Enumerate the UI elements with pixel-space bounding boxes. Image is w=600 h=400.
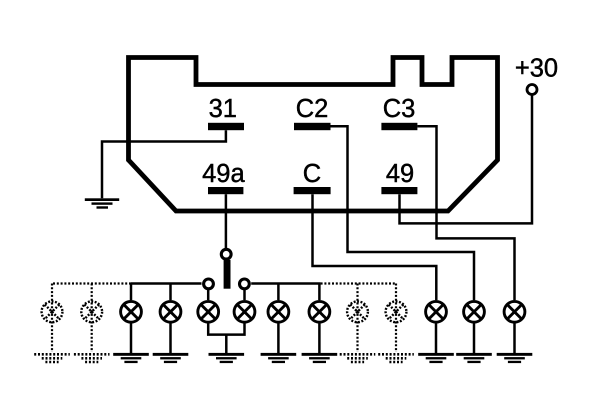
flasher relay outline U1 — [129, 58, 498, 212]
lamp L10 (dotted) — [386, 301, 407, 322]
lamp L1 (dotted) — [42, 301, 63, 322]
wire left lamp bus dotted extension — [52, 282, 131, 284]
wire lamp L13 to ground — [513, 324, 516, 354]
svg-text:C2: C2 — [296, 95, 329, 123]
lamp L4 — [160, 301, 181, 322]
lamp L8 — [309, 301, 330, 322]
lamp L7 — [268, 301, 289, 322]
ground symbol lamp L11 — [418, 353, 454, 363]
wire C2 to lamp L12 — [330, 126, 474, 300]
svg-text:+30: +30 — [515, 55, 558, 83]
ground symbol lamp L12 — [456, 353, 492, 363]
terminal C3 pad — [381, 123, 417, 130]
wire drop to lamp L2 dotted — [91, 284, 93, 353]
svg-text:C3: C3 — [383, 95, 416, 123]
switch S1 top contact — [221, 249, 231, 259]
lamp L2 (dotted) — [81, 301, 102, 322]
wire 49 to +30 — [400, 95, 533, 223]
svg-text:C: C — [303, 160, 321, 188]
wire 31 to ground — [102, 130, 226, 198]
svg-text:49a: 49a — [202, 160, 245, 188]
terminal 49a pad — [208, 187, 243, 194]
wire lamp L12 to ground — [473, 324, 476, 354]
wire lamp L4 to ground — [169, 324, 172, 354]
ground symbol lamp L4 — [153, 353, 189, 363]
wire drop to lamp L9 dotted — [356, 284, 358, 353]
switch S1 lever — [224, 260, 231, 289]
ground symbol lamp L8 — [302, 353, 338, 363]
wire C to lamp L11 — [313, 194, 437, 300]
wire left contact to lamp bus — [131, 282, 202, 285]
wire drop to lamp L3 — [130, 284, 133, 301]
wire drop to lamp L8 — [318, 284, 321, 301]
ground symbol lamps L5+L6 — [209, 353, 245, 363]
ground symbol lamp L9 (dotted) — [340, 354, 376, 362]
terminal C pad — [294, 187, 331, 194]
ground symbol lamp L13 — [497, 353, 533, 363]
wire lamp L11 to ground — [435, 324, 438, 354]
wire C3 to lamp L13 — [417, 126, 514, 300]
wire lamp L3 to ground — [130, 324, 133, 354]
svg-text:31: 31 — [209, 95, 237, 123]
terminal 31 pad — [208, 123, 244, 130]
lamp L11 — [426, 301, 447, 322]
lamp L13 — [504, 301, 525, 322]
+30 terminal circle — [527, 85, 537, 95]
wire drop to lamp L4 — [169, 284, 172, 301]
wire drop to lamp L5 — [207, 289, 210, 300]
wire lamps L5+L6 to shared ground — [208, 324, 244, 354]
wire drop to lamp L1 dotted — [51, 284, 53, 353]
wire right lamp bus dotted extension — [321, 282, 396, 284]
ground symbol lamp L10 (dotted) — [378, 354, 414, 362]
lamp L9 (dotted) — [347, 301, 368, 322]
terminal C2 pad — [294, 123, 331, 130]
lamp L5 — [198, 301, 219, 322]
lamp L12 — [464, 301, 485, 322]
ground symbol lamp L7 — [261, 353, 297, 363]
wire right contact to lamp bus — [251, 282, 320, 285]
ground symbol G1 (terminal 31) — [85, 198, 119, 208]
ground symbol lamp L1 (dotted) — [34, 354, 70, 362]
wire lamp L8 to ground — [318, 324, 321, 354]
wire 49a to switch — [225, 194, 228, 248]
wire drop to lamp L6 — [243, 289, 246, 300]
switch S1 left contact — [204, 279, 214, 289]
svg-text:49: 49 — [386, 160, 414, 188]
ground symbol lamp L3 — [113, 353, 149, 363]
lamp L6 — [234, 301, 255, 322]
lamp L3 — [121, 301, 142, 322]
wire lamp L7 to ground — [277, 324, 280, 354]
wire drop to lamp L7 — [277, 284, 280, 301]
switch S1 right contact — [240, 279, 250, 289]
ground symbol lamp L2 (dotted) — [74, 354, 110, 362]
wire drop to lamp L10 dotted — [395, 284, 397, 353]
terminal 49 pad — [381, 187, 417, 194]
